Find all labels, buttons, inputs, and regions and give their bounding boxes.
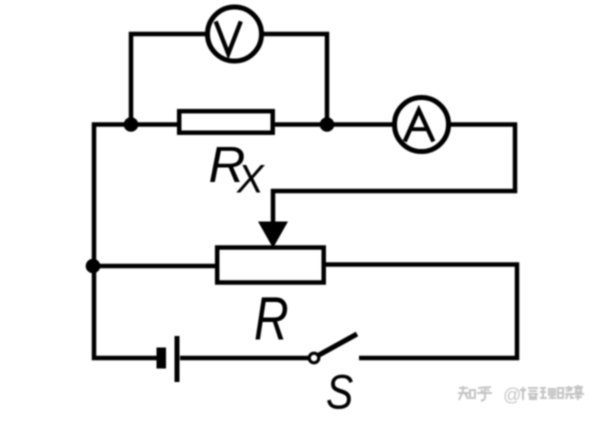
svg-text:@: @ <box>503 385 521 405</box>
svg-text:X: X <box>236 158 265 202</box>
svg-text:R: R <box>254 284 289 353</box>
svg-text:S: S <box>326 366 353 419</box>
